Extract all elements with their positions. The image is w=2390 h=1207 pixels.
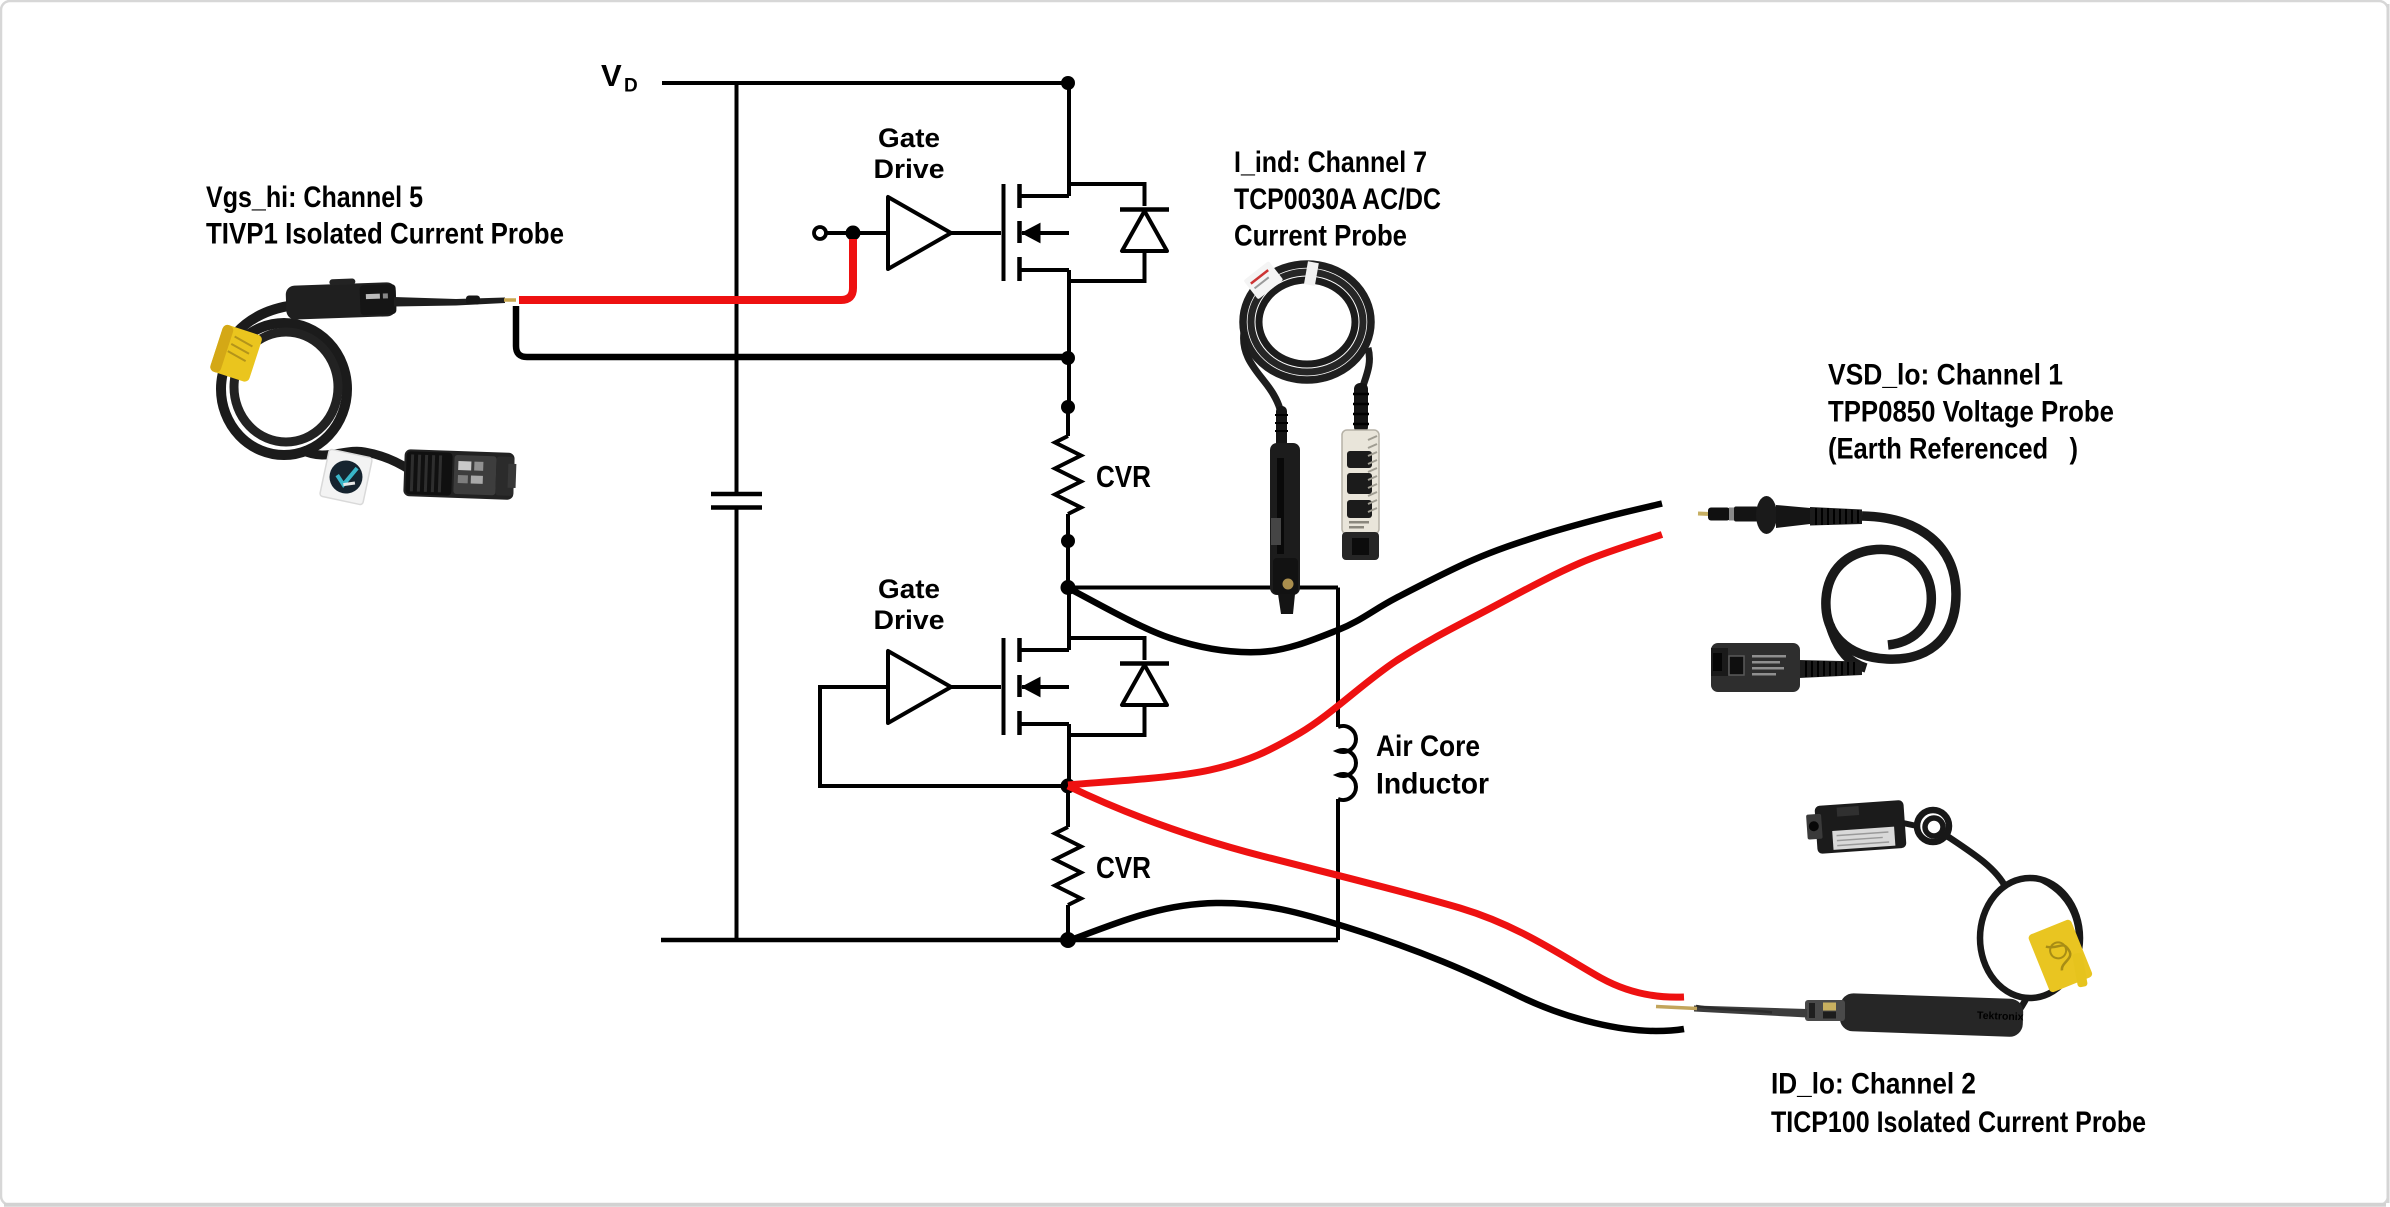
wire: Q2 drain to switch node (1067, 588, 1071, 651)
label: I_ind probe caption (1234, 146, 1441, 253)
node: switch node (1061, 580, 1076, 595)
svg-text:VSD_lo: Channel 1: VSD_lo: Channel 1 (1828, 359, 2063, 392)
capacitor C_bus (711, 494, 762, 508)
wire: black ID_lo return lead (1068, 903, 1684, 1031)
wire: switch node to load box top (1068, 586, 1338, 590)
svg-text:TICP100 Isolated Current Probe: TICP100 Isolated Current Probe (1771, 1106, 2146, 1139)
op-amp U1: gate drive buffer (high side) (888, 197, 951, 269)
wire: buffer output to gate (high side) (951, 231, 1001, 235)
transistor Q1: high-side MOSFET (1004, 184, 1070, 281)
svg-text:CVR: CVR (1096, 850, 1151, 885)
svg-text:TCP0030A AC/DC: TCP0030A AC/DC (1234, 183, 1441, 216)
node: CVR top (high side) (1061, 400, 1075, 414)
svg-text:D: D (624, 76, 638, 97)
wire: red VSD_lo sense lead (1068, 535, 1662, 786)
wire: gate input to buffer (high side) (827, 231, 888, 235)
svg-text:Drive: Drive (874, 605, 945, 635)
svg-text:Air Core: Air Core (1376, 730, 1480, 763)
svg-text:TPP0850 Voltage Probe: TPP0850 Voltage Probe (1828, 396, 2114, 429)
wire: black VSD_lo sense lead (1068, 504, 1662, 653)
svg-text:Current Probe: Current Probe (1234, 220, 1407, 253)
node: ground return junction (1060, 932, 1076, 948)
svg-text:ID_lo: Channel 2: ID_lo: Channel 2 (1771, 1068, 1976, 1101)
probe photo: TCP0030A AC/DC current probe (I_ind) (1243, 261, 1379, 614)
svg-text:Drive: Drive (874, 154, 945, 184)
wire: Q1 drain to VD node (1067, 83, 1071, 196)
transistor Q2: low-side MOSFET (1004, 638, 1070, 735)
wire: red ID_lo sense lead (1068, 786, 1684, 997)
wire: Q1 source down to CVR node (1067, 270, 1071, 407)
svg-text:Tektronix: Tektronix (1977, 1010, 2024, 1024)
label: Vgs_hi probe caption (206, 181, 564, 251)
wire: low-side gate drive reference loop (820, 687, 1066, 786)
svg-text:TIVP1 Isolated Current Probe: TIVP1 Isolated Current Probe (206, 218, 564, 251)
svg-text:(Earth Referenced ): (Earth Referenced ) (1828, 433, 2078, 466)
node: Vgs_hi sense tap (846, 226, 861, 241)
wire: load box right upper (1336, 588, 1340, 728)
probe photo: TPP0850 voltage probe (VSD_lo) (1698, 496, 1956, 692)
svg-text:I_ind: Channel 7: I_ind: Channel 7 (1234, 146, 1427, 179)
label: Air Core Inductor (1376, 730, 1489, 801)
node: source / return junction (1061, 351, 1075, 365)
net label V_D (601, 58, 638, 97)
inductor L1: air core inductor (1338, 726, 1356, 800)
svg-text:V: V (601, 58, 622, 93)
diode D2: body diode (low side) (1069, 638, 1169, 735)
svg-text:Gate: Gate (878, 123, 940, 153)
resistor CVR (low side) (1055, 786, 1081, 940)
diode D1: body diode (high side) (1069, 184, 1169, 281)
node: low-side source node (1061, 779, 1076, 794)
wire: top rail VD (662, 81, 1068, 85)
label: VSD_lo probe caption (1828, 359, 2114, 466)
wire: bottom return rail (661, 938, 1338, 943)
node: VD / drain junction (1061, 76, 1075, 90)
svg-text:Inductor: Inductor (1376, 768, 1489, 801)
label: gate drive (high side) (874, 123, 945, 184)
svg-text:Gate: Gate (878, 574, 940, 604)
terminal: gate input (high side) (814, 227, 826, 239)
wire: buffer output to gate (low side) (951, 685, 1001, 689)
wire: Q2 source to low node (1067, 724, 1071, 786)
wire: load box right lower (1336, 799, 1340, 940)
svg-text:CVR: CVR (1096, 459, 1151, 494)
resistor CVR (high side) (1055, 407, 1081, 541)
wire: left bus rail lower (735, 508, 739, 941)
probe photo: TICP100 isolated current probe (ID_lo) (1656, 800, 2093, 1037)
probe photo: TIVP1 isolated current probe (Vgs_hi) (209, 277, 517, 505)
op-amp U2: gate drive buffer (low side) (888, 651, 951, 723)
label: ID_lo probe caption (1771, 1068, 2146, 1140)
wire: to switch node (1066, 541, 1070, 588)
wire: black Vgs_hi return lead (516, 306, 1068, 357)
svg-text:Vgs_hi: Channel 5: Vgs_hi: Channel 5 (206, 181, 423, 214)
wire: left bus rail upper (735, 83, 739, 494)
label: gate drive (low side) (874, 574, 945, 635)
node: CVR bottom (high side) (1061, 534, 1075, 548)
wire: red Vgs_hi sense lead (519, 239, 853, 300)
